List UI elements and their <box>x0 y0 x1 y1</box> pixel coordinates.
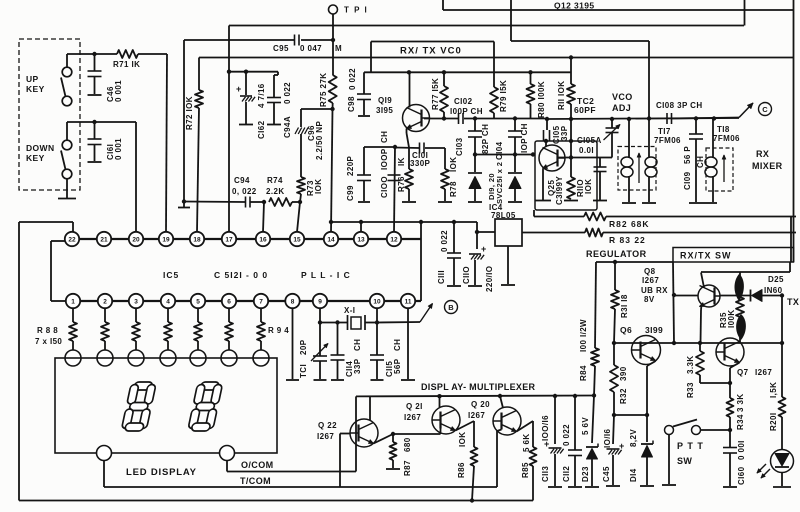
svg-text:R20I: R20I <box>769 413 778 432</box>
transistor Q6 <box>632 336 661 365</box>
svg-text:330P: 330P <box>410 159 431 168</box>
svg-text:CH: CH <box>696 156 705 168</box>
svg-text:7 x I50: 7 x I50 <box>35 337 62 346</box>
svg-text:IOK: IOK <box>449 157 458 172</box>
pin 22 <box>65 232 79 246</box>
svg-text:M: M <box>335 44 342 53</box>
svg-text:56 P: 56 P <box>683 146 692 164</box>
resistor R74 <box>269 198 292 206</box>
svg-text:9: 9 <box>318 298 322 305</box>
wire Q19 emitter <box>406 129 408 134</box>
capacitor C110 electrolytic <box>476 232 478 249</box>
svg-text:Q8: Q8 <box>644 267 656 276</box>
transistor Q21 <box>432 406 460 434</box>
svg-text:UP: UP <box>26 74 39 84</box>
pin 13 <box>354 232 368 246</box>
svg-text:O/COM: O/COM <box>241 460 274 470</box>
IC5 right edge <box>420 222 422 301</box>
transistor Q22 <box>350 419 378 447</box>
wire y=415 <box>614 414 647 416</box>
wire top-left vertical from Q12 box <box>442 0 444 10</box>
wire Q25 box to R82 <box>533 210 535 217</box>
svg-text:7: 7 <box>259 298 263 305</box>
resistor R86 <box>471 447 478 466</box>
wire regulator rail y=262 <box>596 261 673 263</box>
svg-text:R32: R32 <box>619 388 628 404</box>
svg-text:2.2K: 2.2K <box>266 187 285 196</box>
wire pin20 riser <box>135 122 137 232</box>
svg-text:78L05: 78L05 <box>491 211 516 220</box>
svg-text:0 022: 0 022 <box>440 230 449 252</box>
ground down-key <box>66 178 68 198</box>
wire right border <box>793 0 795 262</box>
svg-text:8V: 8V <box>644 295 655 304</box>
svg-text:33P: 33P <box>353 358 362 374</box>
wire y=119 extension <box>547 118 739 119</box>
svg-text:10: 10 <box>373 298 381 305</box>
node pad 7 <box>253 350 269 366</box>
svg-text:P L L - I C: P L L - I C <box>301 270 351 280</box>
wire emitter row y=148 <box>395 147 419 150</box>
pin 11 <box>401 294 415 308</box>
box Q25 oscillator <box>535 141 597 210</box>
wire pin11 stub <box>415 300 421 302</box>
resistor R71 <box>117 50 138 58</box>
resistor R88-7 <box>260 308 262 322</box>
svg-text:C 5I2I - 0 0: C 5I2I - 0 0 <box>214 270 268 280</box>
wire IC4 ground <box>507 246 509 284</box>
pin 21 <box>97 232 111 246</box>
pin 19 <box>159 232 173 246</box>
capacitor C115 <box>376 323 378 356</box>
node pad 6 <box>221 350 237 366</box>
svg-text:C: C <box>762 105 768 114</box>
node C <box>759 103 772 116</box>
LED D26 <box>771 450 794 473</box>
svg-text:0 022: 0 022 <box>348 68 357 90</box>
wire pin9 riser <box>319 308 321 356</box>
svg-text:CI04: CI04 <box>495 141 504 160</box>
resistor R111 <box>569 55 573 59</box>
wire pin8 stub <box>292 308 294 379</box>
wire pin14 riser <box>331 109 333 232</box>
svg-text:13: 13 <box>357 236 365 243</box>
svg-text:+: + <box>236 84 242 94</box>
svg-text:VCO: VCO <box>612 92 633 102</box>
wire Q22 base <box>340 433 351 435</box>
arrow to RX mixer <box>739 103 753 118</box>
svg-text:4 7/16: 4 7/16 <box>257 83 266 108</box>
node pad 4 <box>160 350 176 366</box>
wire bottom run <box>19 500 533 502</box>
svg-text:I,5K: I,5K <box>769 382 778 398</box>
pin 17 <box>222 232 236 246</box>
svg-text:2.2/50 NP: 2.2/50 NP <box>315 121 324 160</box>
wire right drop <box>789 262 791 272</box>
wire varactor rail y=155 <box>475 154 533 156</box>
7-segment digit 2 <box>188 382 223 431</box>
svg-text:0 022: 0 022 <box>562 424 571 446</box>
svg-text:D23: D23 <box>581 466 590 482</box>
transformer T18 <box>706 148 733 191</box>
svg-text:C98: C98 <box>347 96 356 112</box>
wire Q8 emitter <box>700 305 703 311</box>
svg-text:R75 27K: R75 27K <box>319 73 328 107</box>
dashed box UP/DOWN KEY <box>19 39 80 190</box>
svg-text:CIOO: CIOO <box>380 176 389 198</box>
svg-text:C3I99Y: C3I99Y <box>555 176 564 205</box>
resistor R83 line <box>522 232 585 234</box>
svg-text:Q 2I: Q 2I <box>406 402 423 411</box>
svg-text:CI05A: CI05A <box>577 136 602 145</box>
svg-text:C94: C94 <box>234 176 250 185</box>
wire y=40 line <box>184 39 295 41</box>
svg-text:12: 12 <box>390 236 398 243</box>
svg-text:3: 3 <box>134 298 138 305</box>
node pad 1 <box>65 350 81 366</box>
svg-text:21: 21 <box>100 236 108 243</box>
wire Q20 emitter <box>517 421 534 432</box>
svg-text:3 3K: 3 3K <box>736 394 745 413</box>
wire Q20 collector stub <box>500 396 503 408</box>
svg-text:IC5: IC5 <box>163 270 179 280</box>
transistor Q7 <box>716 338 744 366</box>
svg-text:4: 4 <box>166 298 170 305</box>
resistor R88-2 <box>104 308 106 322</box>
svg-text:Q7: Q7 <box>737 368 749 377</box>
pin 6 <box>222 294 236 308</box>
svg-text:R3I I8: R3I I8 <box>620 294 629 318</box>
capacitor C111 <box>453 222 455 253</box>
pad T/COM <box>220 446 235 461</box>
wire C99 top <box>364 146 395 148</box>
svg-text:19: 19 <box>162 236 170 243</box>
svg-text:R 9 4: R 9 4 <box>268 326 289 335</box>
wire VCO y=118.5 <box>424 118 458 120</box>
wire Q25 emitter <box>542 169 544 200</box>
capacitor C105A <box>597 157 612 159</box>
svg-text:T P I: T P I <box>344 6 368 15</box>
svg-text:7FM06: 7FM06 <box>654 136 681 145</box>
svg-text:X-I: X-I <box>344 306 355 315</box>
capacitor C104 <box>514 119 516 132</box>
svg-text:CI62: CI62 <box>257 120 266 139</box>
svg-text:R 8 8: R 8 8 <box>37 326 58 335</box>
IC5 bottom row line <box>65 300 421 302</box>
resistor R85 <box>530 447 537 466</box>
capacitor C114 <box>337 323 339 356</box>
svg-text:15: 15 <box>293 236 301 243</box>
resistor R79 <box>493 42 495 88</box>
capacitor C45 electrolytic <box>613 415 614 444</box>
resistor R35 <box>739 272 741 280</box>
svg-text:R72 IOK: R72 IOK <box>185 96 194 130</box>
capacitor C94A <box>277 72 279 75</box>
svg-text:I267: I267 <box>642 276 659 285</box>
wire x=184 branch <box>183 40 185 202</box>
capacitor C98 <box>363 72 365 94</box>
svg-text:CIII: CIII <box>437 270 446 284</box>
svg-text:3I99: 3I99 <box>645 325 663 335</box>
zener D23 <box>592 396 594 444</box>
svg-text:680: 680 <box>403 437 412 452</box>
svg-text:C94A: C94A <box>283 116 292 138</box>
svg-text:RX/TX SW: RX/TX SW <box>680 251 732 261</box>
svg-text:LED DISPLAY: LED DISPLAY <box>126 467 197 478</box>
switch DOWN KEY <box>62 140 72 150</box>
svg-text:IOK: IOK <box>584 179 593 194</box>
transistor Q8 <box>698 285 720 307</box>
svg-text:CIIO: CIIO <box>462 266 471 284</box>
resistor R201 <box>781 343 783 397</box>
svg-text:82P CH: 82P CH <box>481 124 490 154</box>
svg-text:11: 11 <box>405 298 412 305</box>
wire long bus y=25.5 <box>229 25 744 27</box>
pin 5 <box>191 294 205 308</box>
svg-text:I267: I267 <box>755 368 772 377</box>
svg-text:I00 I/2W: I00 I/2W <box>579 319 588 352</box>
arrow T17 <box>638 153 640 183</box>
pin 12 <box>387 232 401 246</box>
resistor R76 <box>408 148 410 169</box>
wire to node B <box>377 321 420 324</box>
svg-text:I267: I267 <box>317 432 334 441</box>
trimmer TC1 <box>313 355 327 357</box>
svg-text:IN60: IN60 <box>764 286 783 295</box>
regulator IC4 78L05 <box>495 219 522 246</box>
svg-text:R84: R84 <box>579 365 588 381</box>
switch UP KEY <box>62 67 72 77</box>
wire Q12 collector run <box>443 9 794 11</box>
svg-text:SVC25I x 2: SVC25I x 2 <box>495 162 504 204</box>
capacitor C105 <box>546 119 548 130</box>
wire C96 branch <box>301 108 333 110</box>
7-segment digit 1 <box>121 382 156 431</box>
svg-text:20: 20 <box>132 236 140 243</box>
svg-text:SW: SW <box>677 456 692 466</box>
svg-text:DISPL AY- MULTIPLEXER: DISPL AY- MULTIPLEXER <box>421 382 536 392</box>
wire T17 left leg <box>628 119 630 157</box>
wire pin12 riser <box>394 147 395 232</box>
diode D25 <box>720 295 750 297</box>
svg-text:16: 16 <box>259 236 267 243</box>
wire y=41 run <box>511 40 649 42</box>
svg-text:0, 022: 0, 022 <box>232 187 257 196</box>
capacitor C99 <box>363 147 365 175</box>
capacitor C94 <box>245 197 247 208</box>
svg-text:D25: D25 <box>768 275 784 284</box>
varactor D20 <box>514 155 516 173</box>
resistor R88-4 <box>167 308 169 322</box>
svg-text:390: 390 <box>619 366 628 381</box>
svg-text:0 001: 0 001 <box>114 80 123 102</box>
transistor Q19 <box>403 105 430 132</box>
svg-text:RX: RX <box>756 149 769 159</box>
wire T/COM run <box>103 461 105 488</box>
resistor R32 <box>613 343 615 365</box>
pin 3 <box>129 294 143 308</box>
switch PTT <box>665 426 674 435</box>
pin 16 <box>256 232 270 246</box>
wire R75 top <box>332 40 334 75</box>
capacitor C108 <box>666 113 668 124</box>
resistor R77 <box>443 72 445 86</box>
svg-text:TX: TX <box>787 297 799 307</box>
svg-text:ADJ: ADJ <box>612 103 631 113</box>
capacitor C112 <box>574 396 576 450</box>
resistor R80 <box>530 72 532 84</box>
wire pin17 riser <box>228 26 230 233</box>
wire crystal row <box>320 322 348 324</box>
wire Q21 emitter <box>456 421 475 431</box>
resistor R88-5 <box>197 308 199 322</box>
capacitor C161 <box>94 122 96 139</box>
svg-text:R79 I5K: R79 I5K <box>499 80 508 112</box>
trimmer TC2 <box>611 119 613 128</box>
svg-text:R71 IK: R71 IK <box>113 60 140 69</box>
wire pin10 node <box>375 320 379 324</box>
svg-text:B: B <box>448 303 454 312</box>
svg-text:DOWN: DOWN <box>26 143 55 153</box>
svg-text:R76: R76 <box>397 176 406 192</box>
svg-text:0 00I: 0 00I <box>737 440 746 460</box>
svg-text:R 83 22: R 83 22 <box>609 235 646 245</box>
crystal X-1 <box>347 315 349 330</box>
wire T17 right leg <box>648 58 650 158</box>
svg-text:REGULATOR: REGULATOR <box>586 249 647 259</box>
pin 10 <box>370 294 384 308</box>
wire collector rail <box>356 395 594 398</box>
svg-text:R82 68K: R82 68K <box>609 219 650 229</box>
LED display box <box>55 358 277 453</box>
wire pin22 to pin1 loop <box>51 240 65 242</box>
pin 4 <box>161 294 175 308</box>
svg-text:R86: R86 <box>457 462 466 478</box>
node pad 3 <box>128 350 144 366</box>
svg-text:R33: R33 <box>686 382 695 398</box>
wire vertical right drop <box>744 0 746 26</box>
wire down-key junction <box>66 122 68 141</box>
node pad 2 <box>97 350 113 366</box>
wire TX drop <box>781 296 783 344</box>
wire Q6 emitter <box>647 361 656 366</box>
capacitor C95 <box>294 35 296 46</box>
wire key line y=202 <box>184 201 245 204</box>
svg-text:220/IO: 220/IO <box>485 266 494 292</box>
svg-text:R34: R34 <box>736 414 745 430</box>
svg-text:MIXER: MIXER <box>752 161 783 171</box>
svg-text:3I95: 3I95 <box>376 106 393 115</box>
wire TP1 stem <box>332 14 334 40</box>
resistor R88-6 <box>228 308 230 322</box>
pin 7 <box>254 294 268 308</box>
test point TP1 <box>329 5 338 14</box>
wire pin15 riser <box>297 202 300 232</box>
capacitor C162 electrolytic <box>245 72 247 95</box>
resistor R110 <box>570 158 572 178</box>
wire R71 to pin19 <box>138 53 167 55</box>
svg-text:CI02: CI02 <box>454 97 473 106</box>
resistor R34 <box>727 398 734 417</box>
capacitor C96 <box>295 128 299 135</box>
wire Q8 collector <box>701 273 704 288</box>
wire T/COM riser to Q22 <box>339 434 341 488</box>
svg-text:0 001: 0 001 <box>114 138 123 160</box>
svg-text:5 6V: 5 6V <box>581 417 590 435</box>
wire base node to box edge <box>571 157 597 159</box>
resistor R87 <box>392 434 394 442</box>
svg-text:IOK: IOK <box>458 432 467 447</box>
wire vertical x=649 drop <box>648 41 650 58</box>
capacitor C46 <box>94 54 96 71</box>
svg-text:CH: CH <box>353 339 362 351</box>
svg-text:+: + <box>481 244 487 254</box>
svg-text:C45: C45 <box>602 466 611 482</box>
svg-text:P T T: P T T <box>677 441 704 451</box>
svg-text:KEY: KEY <box>26 153 45 163</box>
pin 9 <box>313 294 327 308</box>
arrow T18 <box>723 155 725 182</box>
svg-text:CH: CH <box>380 131 389 143</box>
svg-text:DI4: DI4 <box>629 468 638 482</box>
svg-text:0 047: 0 047 <box>300 44 322 53</box>
wire Q22 collector stub <box>369 396 371 420</box>
svg-text:8,2V: 8,2V <box>629 429 638 447</box>
svg-text:RX/ TX VC0: RX/ TX VC0 <box>400 46 462 57</box>
svg-text:20P: 20P <box>299 339 308 355</box>
svg-text:IOO/I6: IOO/I6 <box>541 415 550 441</box>
svg-text:0.0I: 0.0I <box>579 146 594 155</box>
svg-text:7FM06: 7FM06 <box>713 134 740 143</box>
svg-text:C99: C99 <box>346 185 355 201</box>
pad O/COM <box>97 446 112 461</box>
svg-text:8: 8 <box>291 298 295 305</box>
svg-text:Q 20: Q 20 <box>471 400 490 409</box>
wire Q22 emitter <box>374 434 394 444</box>
svg-text:CI60: CI60 <box>737 466 746 485</box>
svg-text:R85: R85 <box>521 462 530 478</box>
svg-text:22: 22 <box>68 236 76 243</box>
pin 18 <box>190 232 204 246</box>
wire supply y=222 <box>331 221 477 223</box>
svg-text:+: + <box>619 441 625 451</box>
svg-text:IOK: IOK <box>314 179 323 194</box>
svg-text:17: 17 <box>225 236 233 243</box>
svg-text:CII2: CII2 <box>562 466 571 482</box>
transistor Q25 <box>539 145 565 171</box>
capacitor C103 <box>474 119 476 132</box>
ground x=184 <box>183 202 185 208</box>
svg-text:T/COM: T/COM <box>240 476 271 486</box>
svg-text:UB RX: UB RX <box>641 286 668 295</box>
resistor R73 <box>297 177 305 194</box>
resistor R75 <box>329 75 337 103</box>
resistor R31 <box>614 262 616 290</box>
svg-text:CII3: CII3 <box>541 466 550 482</box>
svg-text:CI03: CI03 <box>455 137 464 156</box>
svg-text:IK: IK <box>397 157 406 166</box>
zener D14 <box>646 415 648 442</box>
capacitor C113 electrolytic <box>554 396 556 444</box>
svg-text:R80 I00K: R80 I00K <box>537 81 546 118</box>
svg-text:C95: C95 <box>273 44 289 53</box>
svg-text:1: 1 <box>71 298 75 305</box>
capacitor C102 <box>458 113 460 124</box>
svg-text:R74: R74 <box>267 176 283 185</box>
varactor D19 <box>474 155 476 173</box>
svg-text:60PF: 60PF <box>574 105 596 115</box>
box RX/TX SW <box>673 248 794 263</box>
